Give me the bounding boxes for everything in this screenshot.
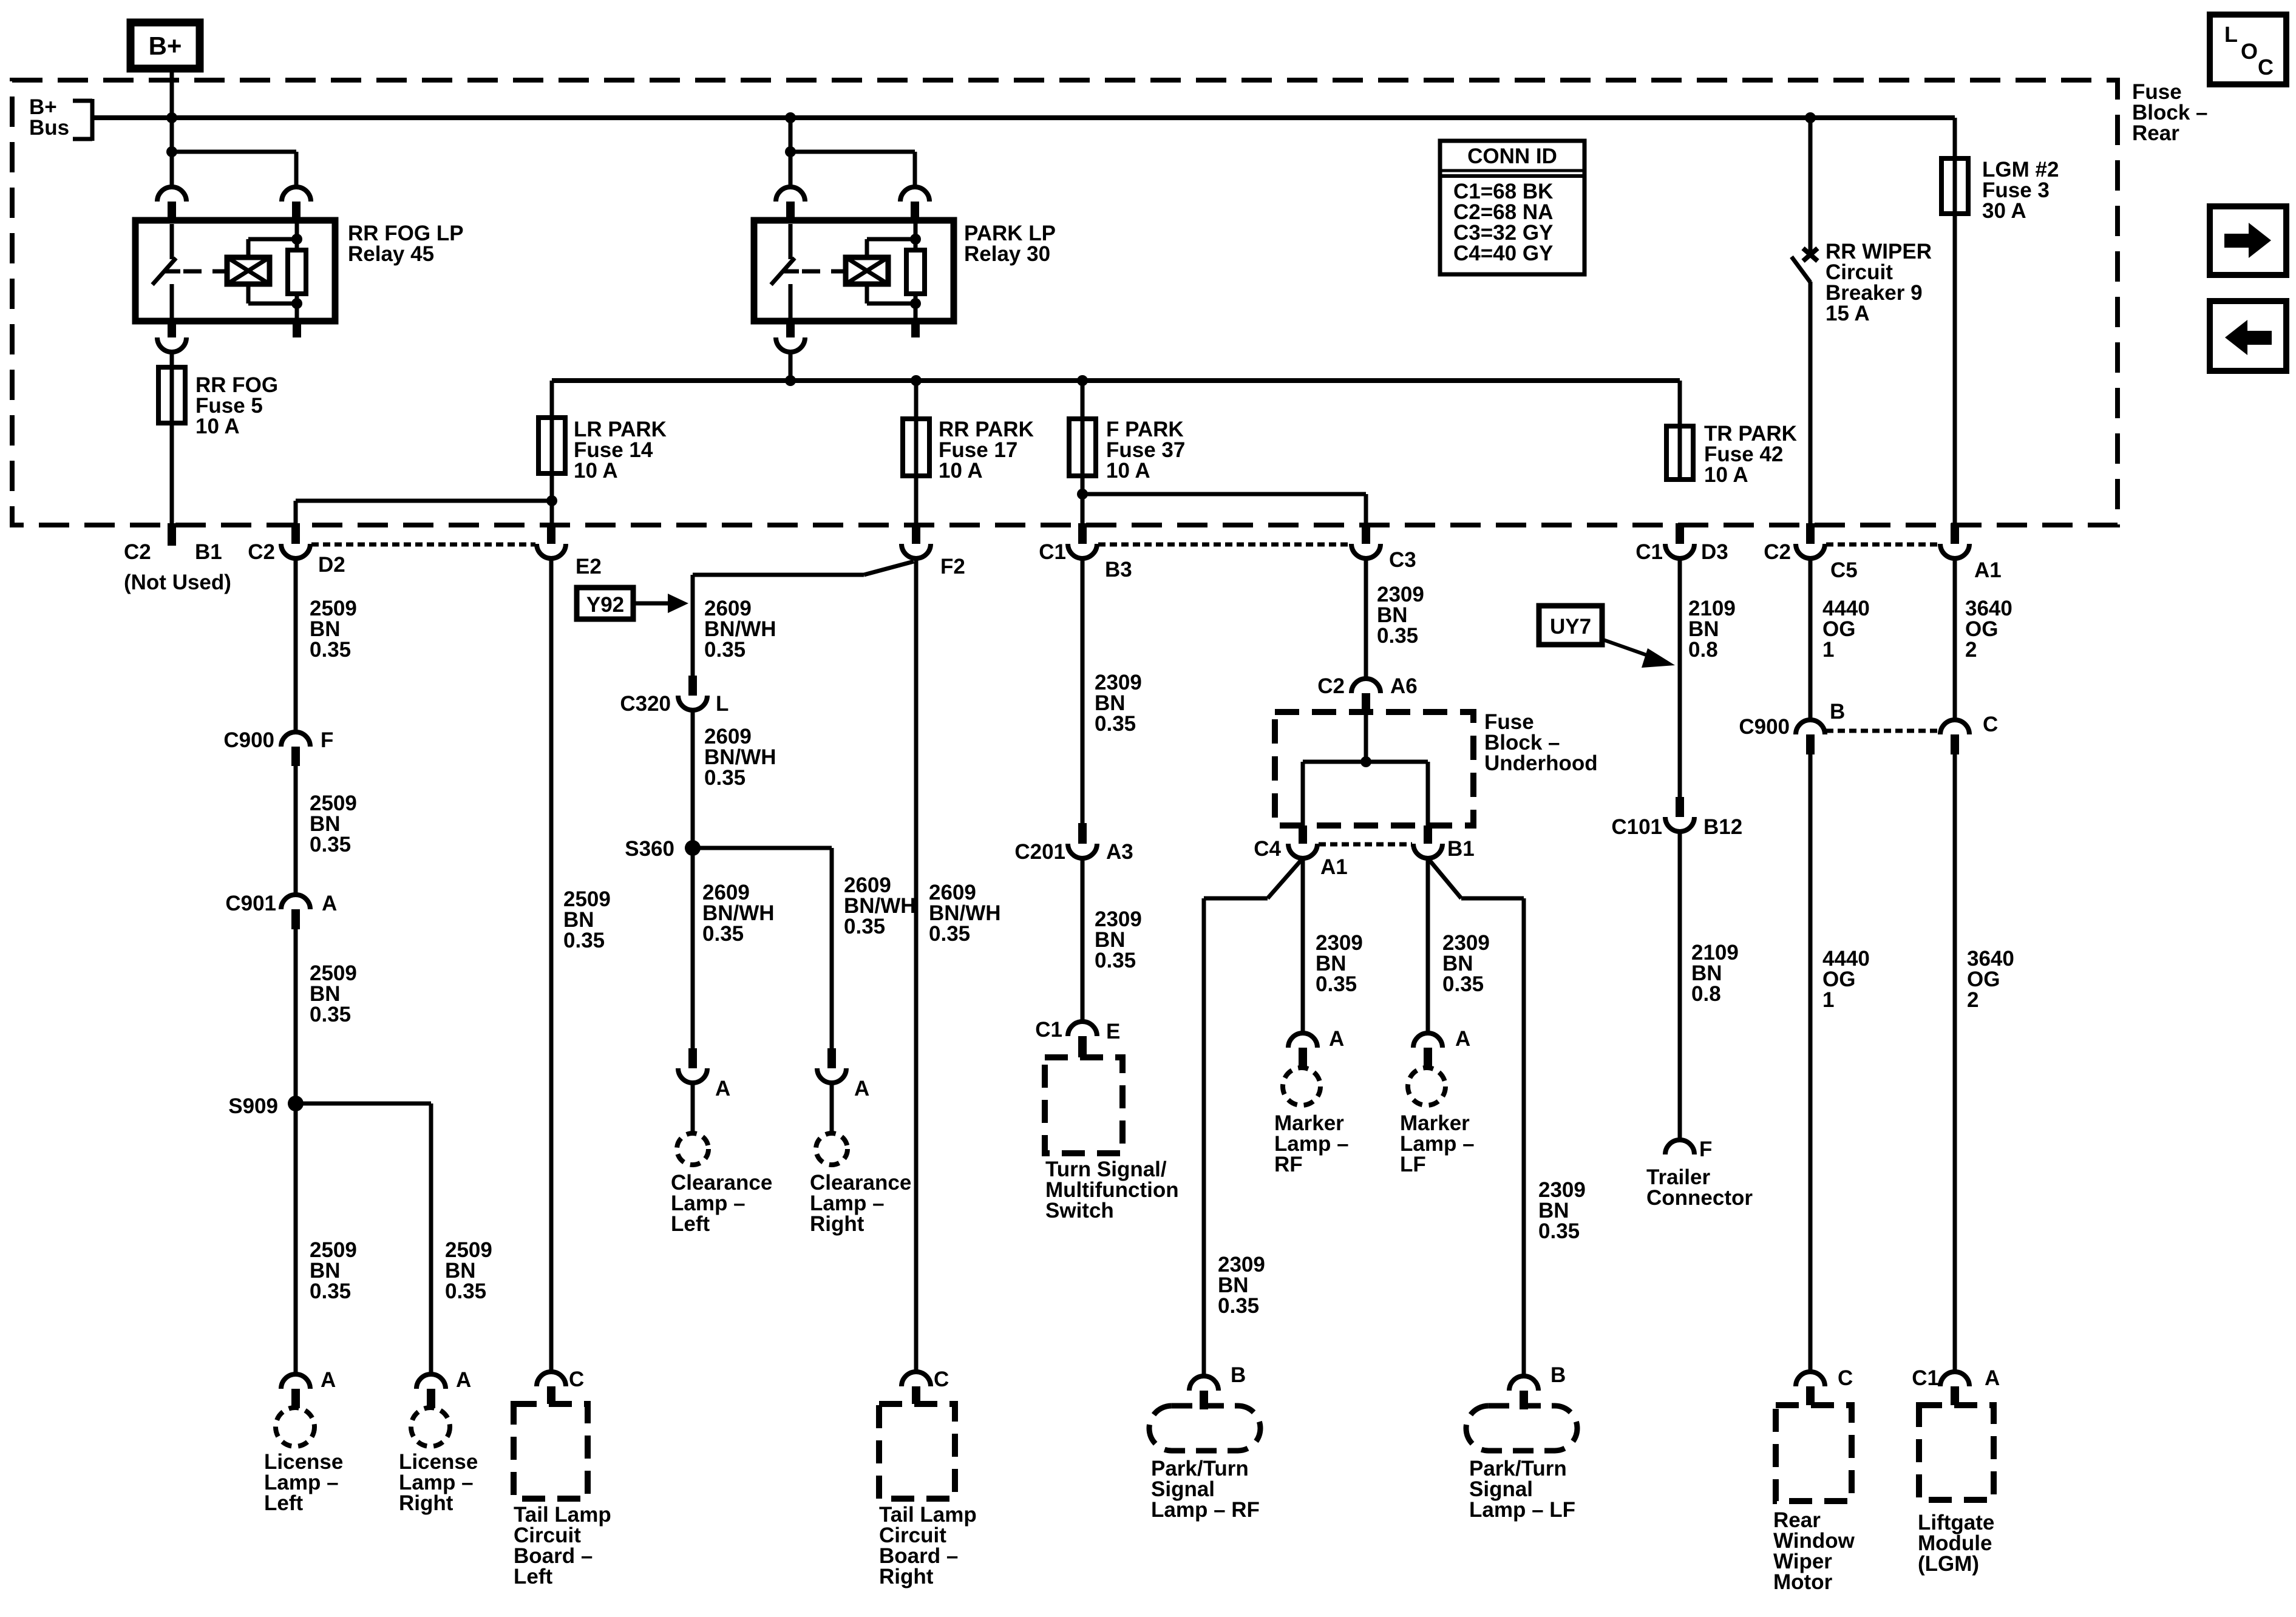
- connector C1 pin E: [1068, 1022, 1097, 1057]
- label S909: [228, 1094, 278, 1118]
- wire F2 to tail right: [914, 558, 919, 1372]
- svg-text:Motor: Motor: [1773, 1570, 1833, 1594]
- wire fuse3 to A1: [1953, 214, 1957, 523]
- svg-text:(Not Used): (Not Used): [124, 571, 231, 594]
- label wire 2509 BN 0.35 (1): [310, 597, 357, 662]
- wiper label: [1773, 1508, 1855, 1594]
- label C1 (B3): [1039, 540, 1066, 564]
- connector link C4 row: [1319, 842, 1412, 847]
- label C900 (F): [223, 728, 274, 752]
- circuit breaker 9 RR WIPER: [1792, 248, 1818, 282]
- label wire 2309 BN 0.35 (PT LF): [1538, 1178, 1586, 1243]
- splice S909: [288, 1096, 304, 1111]
- connector C901 pin A: [281, 895, 310, 929]
- label C1 (E): [1035, 1018, 1062, 1042]
- license lamp right: [411, 1408, 450, 1446]
- svg-text:10 A: 10 A: [939, 459, 983, 483]
- svg-text:10 A: 10 A: [1106, 459, 1150, 483]
- connector A clearance left: [678, 1048, 707, 1083]
- label not used: [124, 571, 231, 594]
- wire fuse37 to B3: [1081, 476, 1085, 523]
- license lamp right label: [399, 1450, 478, 1515]
- svg-text:A: A: [1455, 1027, 1470, 1051]
- connector C101 pin B12: [1665, 797, 1694, 832]
- svg-text:RF: RF: [1274, 1153, 1303, 1176]
- connector B park/turn LF: [1509, 1376, 1538, 1409]
- label A (clr L): [715, 1077, 730, 1100]
- node feed/relay30: [785, 375, 796, 386]
- label B3: [1105, 558, 1132, 581]
- license lamp left: [276, 1408, 314, 1446]
- svg-text:C901: C901: [225, 892, 276, 915]
- svg-text:LF: LF: [1400, 1153, 1426, 1176]
- connector C1 pin D3: [1665, 523, 1694, 558]
- label F2: [940, 555, 965, 578]
- fuse 37 F PARK: [1069, 381, 1096, 476]
- svg-text:Switch: Switch: [1045, 1199, 1114, 1222]
- svg-text:C1: C1: [1635, 540, 1663, 564]
- fuse 17 label: [939, 418, 1034, 483]
- svg-text:C900: C900: [1739, 715, 1790, 739]
- svg-text:0.35: 0.35: [929, 922, 970, 946]
- connector C tail left: [537, 1372, 566, 1404]
- svg-text:30 A: 30 A: [1982, 199, 2026, 223]
- svg-text:E2: E2: [576, 555, 602, 578]
- label wire 2309 BN 0.35 (C3): [1377, 583, 1424, 648]
- park/turn signal lamp LF: [1466, 1406, 1577, 1451]
- connector C900 pin F: [281, 732, 310, 766]
- wire E2 to tail left: [549, 558, 554, 1372]
- svg-text:C101: C101: [1611, 815, 1662, 839]
- connector C2 pin E2: [537, 523, 566, 558]
- label F: [321, 728, 333, 752]
- wire C900C to liftgate: [1953, 754, 1957, 1372]
- label E: [1106, 1020, 1120, 1043]
- svg-text:0.35: 0.35: [1218, 1294, 1259, 1318]
- label C (wiper): [1838, 1366, 1853, 1390]
- svg-text:A1: A1: [1320, 855, 1348, 879]
- tail right label: [879, 1503, 977, 1588]
- fuse block rear label: [2132, 80, 2208, 145]
- wire D3 down: [1678, 558, 1682, 797]
- label C1 (D3): [1635, 540, 1663, 564]
- svg-text:Lamp – RF: Lamp – RF: [1151, 1498, 1260, 1522]
- wire branch down to C320: [691, 575, 695, 676]
- svg-text:F: F: [321, 728, 333, 752]
- label wire 2309 BN 0.35 (PT RF): [1218, 1253, 1265, 1318]
- connector C2 pin F2: [902, 523, 931, 558]
- label wire 2509 BN 0.35 (license L): [310, 1238, 357, 1303]
- svg-text:0.35: 0.35: [1095, 949, 1136, 972]
- svg-text:O: O: [2241, 39, 2258, 64]
- svg-text:C: C: [1838, 1366, 1853, 1390]
- svg-text:C320: C320: [620, 692, 671, 716]
- svg-text:UY7: UY7: [1550, 615, 1591, 639]
- fuse 14 LR PARK: [538, 418, 565, 473]
- clearance lamp left: [677, 1133, 708, 1165]
- svg-text:0.35: 0.35: [445, 1280, 486, 1303]
- arrow left box: [2210, 301, 2286, 371]
- svg-text:2: 2: [1965, 638, 1977, 662]
- label F (trailer): [1699, 1137, 1712, 1161]
- wire bus to breaker: [1809, 118, 1813, 251]
- svg-text:0.8: 0.8: [1688, 638, 1718, 662]
- svg-text:A1: A1: [1974, 558, 2002, 582]
- svg-text:Relay 30: Relay 30: [964, 242, 1050, 266]
- label C (tail L): [569, 1368, 584, 1391]
- liftgate module box: [1919, 1405, 1994, 1500]
- svg-text:C: C: [934, 1368, 949, 1391]
- node bus/relay30: [785, 112, 796, 123]
- label wire 2509 BN 0.35 (2): [310, 792, 357, 856]
- wire feed to fuse14: [550, 381, 554, 418]
- label C2 (B1): [124, 540, 151, 564]
- marker lamp RF: [1283, 1068, 1320, 1105]
- svg-text:(LGM): (LGM): [1918, 1552, 1979, 1576]
- svg-text:B: B: [1231, 1363, 1246, 1387]
- svg-text:C5: C5: [1830, 558, 1858, 582]
- wire C900F down: [294, 766, 298, 895]
- wire relay30 to feed line: [789, 352, 793, 381]
- wire S360 branch right: [693, 848, 832, 1048]
- svg-text:Right: Right: [399, 1491, 453, 1515]
- svg-text:Relay 45: Relay 45: [348, 242, 434, 266]
- label C901: [225, 892, 276, 915]
- svg-text:B+: B+: [149, 32, 182, 60]
- splice S360: [685, 840, 701, 856]
- clearance right label: [810, 1171, 911, 1236]
- label wire 2609 BN/WH 0.35 (clr R): [844, 873, 916, 938]
- label A (license L): [321, 1368, 336, 1392]
- label C3: [1389, 548, 1416, 572]
- connector A license left: [281, 1374, 310, 1408]
- svg-text:1: 1: [1822, 988, 1834, 1012]
- label A3: [1106, 840, 1133, 864]
- wire A1 to marker RF: [1301, 858, 1305, 1033]
- label wire 2609 BN/WH 0.35 (clr L): [702, 881, 775, 946]
- svg-text:A: A: [854, 1077, 869, 1100]
- svg-text:A6: A6: [1390, 674, 1418, 698]
- wire B1 branch to park/turn LF: [1428, 858, 1524, 1376]
- fuse block underhood label: [1484, 710, 1598, 775]
- relay 30 PARK LP: [754, 118, 954, 352]
- svg-text:C: C: [1983, 713, 1998, 736]
- fuse 17 RR PARK: [903, 381, 929, 476]
- connector C2 pin C5: [1796, 523, 1825, 558]
- relay 30 PARK LP label: [964, 222, 1056, 266]
- svg-text:Left: Left: [514, 1565, 553, 1588]
- label C5: [1830, 558, 1858, 582]
- node bus/breaker: [1805, 112, 1816, 123]
- relay 45 RR FOG LP: [135, 118, 335, 352]
- label wire 2309 BN 0.35 (B3): [1095, 671, 1142, 736]
- label A1 (C4): [1320, 855, 1348, 879]
- connector A clearance right: [817, 1048, 846, 1083]
- svg-text:2: 2: [1967, 988, 1978, 1012]
- clearance lamp right: [816, 1133, 847, 1165]
- wire C101 to trailer: [1678, 832, 1682, 1140]
- label B (PT LF): [1550, 1363, 1566, 1387]
- wire C5 down: [1809, 558, 1813, 720]
- svg-text:Right: Right: [879, 1565, 934, 1588]
- svg-text:Connector: Connector: [1646, 1186, 1753, 1210]
- CONN ID table: [1440, 141, 1584, 274]
- label A (license R): [456, 1368, 471, 1392]
- fuse 5 label: [195, 373, 278, 438]
- svg-text:0.35: 0.35: [1316, 972, 1357, 996]
- svg-text:B: B: [1550, 1363, 1566, 1387]
- svg-text:Rear: Rear: [2132, 121, 2179, 145]
- fuse 42 TR PARK: [1666, 426, 1693, 480]
- svg-text:Y92: Y92: [586, 593, 624, 617]
- label A (marker LF): [1455, 1027, 1470, 1051]
- label wire 3640 OG 2 (bottom): [1967, 947, 2014, 1012]
- svg-text:A3: A3: [1106, 840, 1133, 864]
- connector C900 pin B: [1796, 720, 1825, 754]
- fuse 3 label: [1982, 158, 2059, 223]
- svg-text:C2: C2: [248, 540, 275, 564]
- label wire 2509 BN 0.35 (3): [310, 961, 357, 1026]
- pin C2 B1 not used: [168, 523, 176, 546]
- fuse 14 label: [574, 418, 667, 483]
- label C1 (liftgate): [1912, 1366, 1939, 1390]
- fuse block underhood dashed box: [1275, 712, 1473, 825]
- label C2 (A6): [1317, 674, 1345, 698]
- wire S909 branch right: [296, 1103, 431, 1373]
- label A (clr R): [854, 1077, 869, 1100]
- svg-text:15 A: 15 A: [1826, 302, 1870, 325]
- park feed line: [552, 378, 1680, 383]
- breaker label: [1826, 240, 1932, 325]
- svg-text:0.35: 0.35: [702, 922, 744, 946]
- svg-text:C: C: [2258, 55, 2274, 80]
- fuse block rear dashed border: [12, 80, 2118, 525]
- wire D2 down: [294, 558, 298, 732]
- connector C2 pin D2: [281, 523, 310, 558]
- connector C2 pin A1: [1940, 523, 1969, 558]
- license lamp left label: [264, 1450, 343, 1515]
- svg-text:C1: C1: [1912, 1366, 1939, 1390]
- connector F trailer: [1665, 1140, 1694, 1154]
- label A (marker RF): [1329, 1027, 1344, 1051]
- B+ bus wire: [92, 115, 1955, 120]
- label C201: [1014, 840, 1065, 864]
- marker RF label: [1274, 1111, 1349, 1176]
- relay 45 RR FOG LP label: [348, 222, 464, 266]
- svg-text:B1: B1: [195, 540, 222, 564]
- wire breaker to C5: [1809, 282, 1813, 523]
- svg-text:C1: C1: [1035, 1018, 1062, 1042]
- wire S360 to clearance left: [691, 848, 695, 1048]
- fuse 42 label: [1704, 422, 1797, 487]
- label B (PT RF): [1231, 1363, 1246, 1387]
- park/turn signal lamp RF: [1149, 1406, 1260, 1451]
- svg-text:D2: D2: [318, 553, 345, 577]
- connector C4 pin B1: [1413, 825, 1442, 858]
- label wire 2609 BN/WH 0.35 (Y92 top): [704, 597, 776, 662]
- connector C tail right: [902, 1372, 931, 1404]
- label wire 2509 BN 0.35 (tail L): [563, 887, 611, 952]
- wire fuse14 to split: [550, 473, 554, 523]
- wire C901 to S909: [294, 929, 298, 1103]
- label A (liftgate): [1985, 1366, 2000, 1390]
- svg-text:C3: C3: [1389, 548, 1416, 572]
- LOC reference box: [2210, 15, 2286, 84]
- label wire 2309 BN 0.35 (marker RF): [1316, 931, 1363, 996]
- svg-text:C: C: [569, 1368, 584, 1391]
- node fuse37 split: [1077, 489, 1088, 500]
- wire C3 to A6: [1364, 558, 1368, 679]
- connector link C900 row: [1826, 729, 1939, 733]
- svg-text:A: A: [715, 1077, 730, 1100]
- label B (C900): [1830, 700, 1845, 724]
- connector C201 pin A3: [1068, 823, 1097, 858]
- wire F2 branch diagonal: [693, 561, 914, 575]
- label C101: [1611, 815, 1662, 839]
- svg-text:A: A: [456, 1368, 471, 1392]
- connector link C2/C5 row: [1826, 543, 1939, 547]
- marker LF label: [1400, 1111, 1475, 1176]
- svg-text:C2: C2: [124, 540, 151, 564]
- label E2: [576, 555, 602, 578]
- wire A6 into block: [1364, 713, 1368, 762]
- wire split to C3: [1082, 494, 1366, 523]
- node bus/relay45: [166, 112, 177, 123]
- B+ power symbol box: [131, 22, 200, 69]
- svg-text:Left: Left: [264, 1491, 304, 1515]
- connector C900 pin C: [1940, 720, 1969, 754]
- node feed/fuse37: [1077, 375, 1088, 386]
- svg-text:L: L: [2224, 22, 2238, 47]
- svg-text:C201: C201: [1014, 840, 1065, 864]
- label C320: [620, 692, 671, 716]
- connector C2 pin A6: [1351, 679, 1381, 713]
- label B1 (C4): [1447, 837, 1475, 861]
- svg-text:0.35: 0.35: [1442, 972, 1484, 996]
- svg-text:0.35: 0.35: [844, 915, 885, 938]
- svg-text:0.35: 0.35: [1095, 712, 1136, 736]
- underhood bus bracket: [1303, 762, 1428, 825]
- svg-text:Underhood: Underhood: [1484, 751, 1598, 775]
- label A1 (liftgate feed): [1974, 558, 2002, 582]
- svg-text:F2: F2: [940, 555, 965, 578]
- connector C1 pin A liftgate: [1940, 1372, 1969, 1405]
- wire B+ box to bus: [170, 69, 174, 118]
- svg-text:E: E: [1106, 1020, 1120, 1043]
- svg-text:0.35: 0.35: [310, 1280, 351, 1303]
- wire split to D2: [296, 501, 552, 523]
- svg-text:0.35: 0.35: [563, 929, 605, 952]
- fuse 5 RR FOG: [158, 367, 185, 423]
- connector A license right: [416, 1374, 446, 1408]
- B+ Bus label: [29, 95, 69, 140]
- label wire 2109 BN 0.8 (trailer): [1691, 941, 1739, 1006]
- connector A marker RF: [1288, 1033, 1317, 1067]
- svg-text:S909: S909: [228, 1094, 278, 1118]
- svg-text:1: 1: [1822, 638, 1834, 662]
- wire feed to fuse42: [1678, 381, 1682, 426]
- svg-text:A: A: [321, 1368, 336, 1392]
- park/turn RF label: [1151, 1457, 1260, 1522]
- svg-text:C2: C2: [1317, 674, 1345, 698]
- svg-text:Bus: Bus: [29, 116, 69, 140]
- tail left label: [514, 1503, 611, 1588]
- svg-text:Lamp – LF: Lamp – LF: [1469, 1498, 1575, 1522]
- turn signal multifunction switch box: [1045, 1057, 1123, 1153]
- svg-text:0.35: 0.35: [1377, 624, 1418, 648]
- label wire 4440 OG 1 (top): [1822, 597, 1870, 662]
- clearance left label: [671, 1171, 772, 1236]
- svg-text:B1: B1: [1447, 837, 1475, 861]
- label wire 2309 BN 0.35 (C201): [1095, 907, 1142, 972]
- svg-text:C4: C4: [1254, 837, 1281, 861]
- connector C4 pin A1: [1288, 825, 1317, 858]
- label C900 (B): [1739, 715, 1790, 739]
- connector C320 pin L: [678, 676, 707, 710]
- label C4: [1254, 837, 1281, 861]
- connector C wiper: [1796, 1372, 1825, 1405]
- liftgate label: [1918, 1511, 1994, 1576]
- fuse 37 label: [1106, 418, 1185, 483]
- svg-text:A: A: [1985, 1366, 2000, 1390]
- trailer connector label: [1646, 1165, 1753, 1210]
- turn signal label: [1045, 1158, 1179, 1222]
- svg-text:S360: S360: [625, 837, 674, 861]
- svg-text:10 A: 10 A: [574, 459, 618, 483]
- svg-text:D3: D3: [1701, 540, 1728, 564]
- svg-text:L: L: [716, 692, 729, 716]
- marker lamp LF: [1408, 1068, 1445, 1105]
- wire to clearance right lamp: [830, 1083, 834, 1133]
- label B12: [1703, 815, 1742, 839]
- tail lamp circuit board right: [879, 1404, 955, 1499]
- svg-text:B: B: [1830, 700, 1845, 724]
- svg-text:A: A: [1329, 1027, 1344, 1051]
- UY7 callout box: [1539, 606, 1675, 668]
- label wire 2609 BN/WH 0.35 (C320): [704, 725, 776, 790]
- svg-text:C900: C900: [223, 728, 274, 752]
- label C2 (C5): [1764, 540, 1791, 564]
- label C2 (D2): [248, 540, 275, 564]
- svg-text:0.35: 0.35: [1538, 1219, 1580, 1243]
- park/turn LF label: [1469, 1457, 1575, 1522]
- wire C900B to wiper: [1809, 754, 1813, 1372]
- fuse 3 LGM #2: [1941, 158, 1968, 214]
- svg-text:C4=40 GY: C4=40 GY: [1453, 242, 1553, 265]
- connector link C1 row: [1098, 543, 1350, 547]
- wire bus corner to fuse3: [1953, 118, 1957, 158]
- node underhood: [1360, 756, 1371, 767]
- label wire 2309 BN 0.35 (marker LF): [1442, 931, 1490, 996]
- node fuse14 split: [546, 495, 557, 506]
- wire C201 to C1E: [1081, 858, 1085, 1022]
- label wire 2509 BN 0.35 (license R): [445, 1238, 492, 1303]
- svg-text:Left: Left: [671, 1212, 710, 1236]
- B+ Bus bracket: [73, 99, 92, 141]
- wire B3 down: [1081, 558, 1085, 823]
- wire A1 down: [1953, 558, 1957, 720]
- label D2: [318, 553, 345, 577]
- label A (C901): [322, 892, 337, 915]
- label D3: [1701, 540, 1728, 564]
- wire fuse5 to connector B1: [170, 423, 174, 523]
- label wire 2109 BN 0.8 (D3): [1688, 597, 1736, 662]
- node feed/fuse17: [911, 375, 922, 386]
- connector link C2 row: [311, 543, 535, 547]
- wire to clearance left lamp: [691, 1083, 695, 1133]
- svg-text:A: A: [322, 892, 337, 915]
- label C (tail R): [934, 1368, 949, 1391]
